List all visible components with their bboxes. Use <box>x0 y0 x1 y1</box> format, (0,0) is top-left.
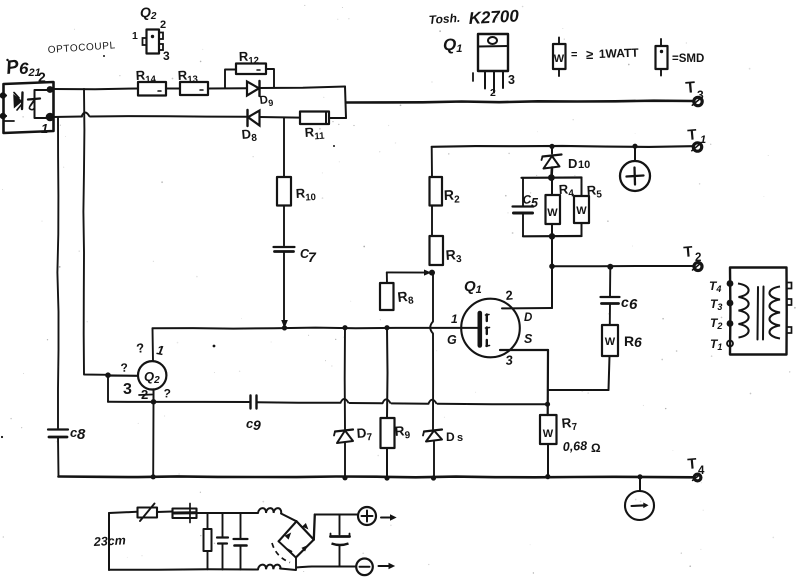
svg-text:G: G <box>447 333 457 347</box>
svg-text:D: D <box>524 312 532 324</box>
svg-text:5: 5 <box>531 196 539 210</box>
svg-text:W: W <box>576 205 587 217</box>
svg-text:23cm: 23cm <box>92 533 126 549</box>
svg-text:3: 3 <box>163 49 170 63</box>
svg-text:1: 1 <box>41 121 48 136</box>
svg-text:W: W <box>554 53 565 65</box>
svg-text:3: 3 <box>508 73 515 87</box>
svg-text:W: W <box>543 428 554 440</box>
svg-text:=SMD: =SMD <box>672 53 704 65</box>
svg-text:R: R <box>624 333 634 349</box>
svg-text:?: ? <box>163 386 172 401</box>
svg-text:10: 10 <box>578 159 590 171</box>
svg-text:9: 9 <box>253 417 261 433</box>
svg-text:D: D <box>568 156 577 171</box>
svg-text:W: W <box>547 207 558 219</box>
svg-text:K2700: K2700 <box>468 6 520 28</box>
svg-text:Tosh.: Tosh. <box>428 11 460 27</box>
svg-text:=: = <box>571 49 577 61</box>
svg-text:c: c <box>621 294 629 310</box>
svg-text:D: D <box>446 430 455 444</box>
svg-text:T: T <box>685 79 696 97</box>
svg-text:Ω: Ω <box>591 441 601 455</box>
svg-text:8: 8 <box>77 426 86 443</box>
svg-text:7: 7 <box>308 249 317 265</box>
svg-text:≥: ≥ <box>586 47 593 62</box>
svg-text:2: 2 <box>490 87 496 99</box>
svg-text:1: 1 <box>132 30 138 42</box>
svg-text:2: 2 <box>505 287 514 303</box>
svg-text:6: 6 <box>629 296 638 313</box>
svg-text:1: 1 <box>451 312 458 326</box>
svg-text:T: T <box>687 455 698 473</box>
svg-text:0,68: 0,68 <box>562 439 587 454</box>
svg-text:2: 2 <box>160 19 166 31</box>
svg-text:3: 3 <box>123 381 132 398</box>
svg-text:s: s <box>457 432 463 444</box>
svg-text:T: T <box>687 126 698 144</box>
svg-text:S: S <box>524 332 533 346</box>
svg-text:W: W <box>605 336 616 348</box>
svg-text:T: T <box>683 243 694 261</box>
svg-text:2: 2 <box>38 69 46 85</box>
svg-text:1WATT: 1WATT <box>599 46 640 61</box>
svg-text:?: ? <box>120 360 129 375</box>
svg-text:6: 6 <box>634 334 642 350</box>
